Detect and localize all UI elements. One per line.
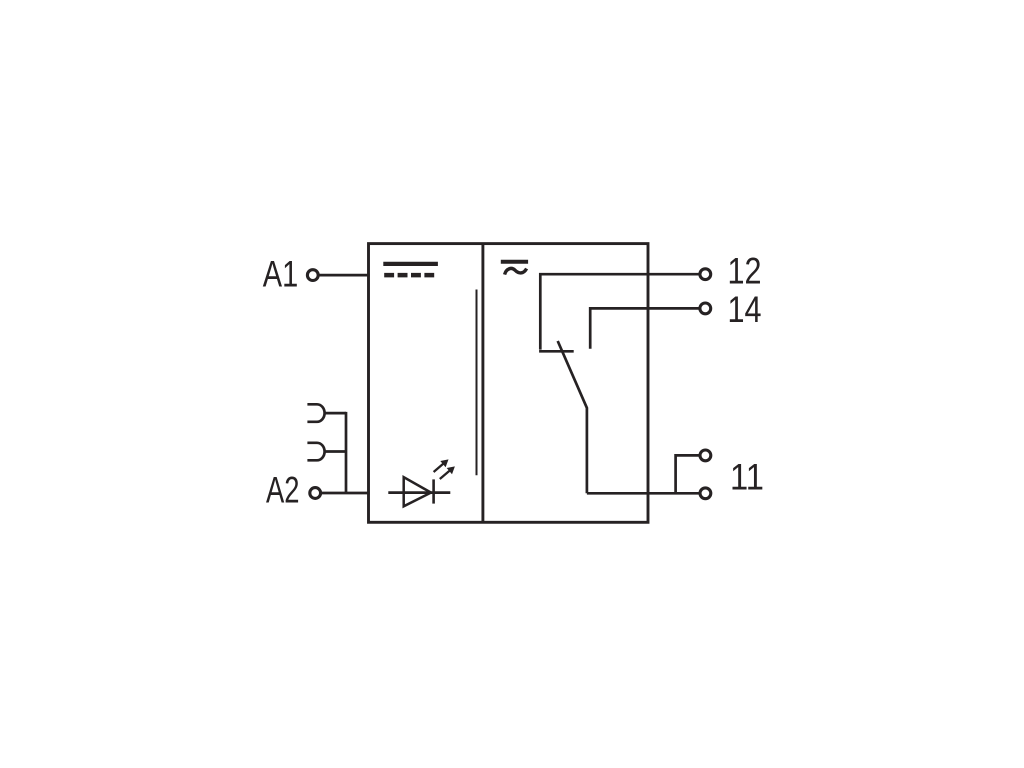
fixed contact bar (NC, 12) [539, 350, 574, 353]
terminal A2 circle [310, 488, 321, 499]
AC symbol (bar over tilde) [501, 262, 528, 275]
svg-text:11: 11 [730, 457, 764, 498]
wire A1 to box [318, 274, 370, 277]
wire arc 1 to bus [325, 412, 346, 415]
terminal 11 lower circle [700, 488, 711, 499]
svg-text:14: 14 [728, 289, 762, 330]
wire bridging 11 terminals [676, 455, 701, 493]
terminal 14 circle [700, 303, 711, 314]
terminal A1 circle [307, 270, 318, 281]
common wire to terminal 11 [587, 492, 700, 495]
LED indicator [388, 459, 455, 506]
svg-text:A2: A2 [266, 470, 300, 511]
internal divider between coil side and contact side [481, 244, 484, 523]
jumper contact arc 1 [307, 404, 324, 422]
svg-text:12: 12 [728, 250, 762, 291]
terminal 11 upper circle [700, 450, 711, 461]
relay module box outline [369, 244, 649, 523]
jumper bus vertical wire [345, 412, 348, 493]
wire arc 2 to bus [325, 450, 346, 453]
DC symbol (solid bar over dashed bar) [383, 264, 438, 275]
galvanic separation barrier line [476, 290, 478, 476]
terminal 12 circle [700, 269, 711, 280]
wire contact 14 with hook [590, 308, 700, 348]
jumper contact arc 2 [307, 443, 324, 461]
wire A2 to box [321, 492, 370, 495]
wire contact 12 [540, 274, 700, 349]
svg-text:A1: A1 [263, 254, 298, 295]
moving contact blade [558, 341, 587, 493]
